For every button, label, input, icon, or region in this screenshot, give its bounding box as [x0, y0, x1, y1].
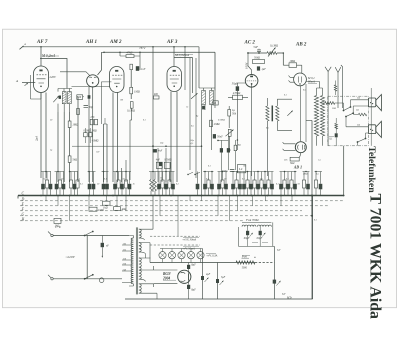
tube V1 grid dashes — [37, 74, 47, 76]
transformer core — [136, 227, 137, 294]
node a input tick — [20, 46, 24, 50]
svg-text:G: G — [22, 212, 25, 216]
wire rect filament — [154, 266, 178, 287]
wire V1 left loop — [31, 75, 42, 99]
wire x84 h — [77, 96, 84, 98]
tube V4 AF3 envelope — [167, 67, 182, 92]
svg-text:0,1: 0,1 — [286, 179, 289, 181]
svg-text:1nF: 1nF — [141, 68, 146, 71]
wire main HT bus — [18, 195, 344, 197]
svg-text:AM 2: AM 2 — [109, 40, 122, 45]
wire v6a left hooks — [289, 76, 295, 83]
antenna dipole — [335, 67, 341, 108]
transformer sec 2 — [139, 243, 141, 252]
resistor zz sp1 — [325, 102, 335, 105]
wire bus D — [20, 200, 344, 202]
capacitor 50uF blob — [236, 86, 239, 91]
svg-text:ω: ω — [254, 256, 256, 259]
svg-text:2μA: 2μA — [35, 136, 39, 141]
node mains t2 — [51, 278, 53, 280]
wire V1 top feed — [40, 47, 42, 66]
resistor v6b box — [290, 157, 299, 161]
wire Rg3 col — [130, 70, 132, 99]
wire k2 out — [346, 106, 368, 127]
capacitor 4n box — [156, 162, 162, 168]
wire bus E — [20, 205, 330, 207]
svg-text:0,1: 0,1 — [143, 120, 146, 122]
wire ac2 top wire — [248, 53, 283, 65]
resistor 400 box — [154, 96, 160, 99]
resistor box 250b — [94, 119, 97, 124]
wire bottom bus — [125, 298, 313, 300]
antenna fork — [325, 67, 331, 146]
wire ps vert x202 — [202, 249, 204, 300]
speaker LS1 — [368, 98, 375, 107]
wire V2 feed — [98, 52, 105, 75]
capacitor blob sp — [335, 133, 338, 137]
wire x153 col — [152, 47, 154, 192]
trimmer out — [287, 111, 292, 116]
svg-text:470kΩ: 470kΩ — [233, 92, 240, 95]
wire row rails — [41, 171, 322, 173]
resistor 470k box — [233, 95, 243, 99]
svg-text:1MΩ: 1MΩ — [72, 124, 78, 127]
wire ift1 to V3 — [72, 86, 110, 88]
wire x69 col3 — [69, 163, 71, 183]
wire c67 links — [218, 136, 235, 182]
svg-text:≈41V, 30mA: ≈41V, 30mA — [183, 239, 197, 242]
capacitor blob c7 — [227, 148, 230, 152]
wire v6a out — [306, 82, 322, 96]
wire ift1 top — [58, 89, 72, 92]
svg-text:0,1: 0,1 — [80, 184, 83, 186]
wire lamp feed line1 — [150, 235, 200, 237]
wire V3 grid — [117, 93, 119, 183]
svg-text:0,1MΩ: 0,1MΩ — [270, 43, 278, 47]
wire V4 grid — [176, 92, 178, 183]
wire antenna lead — [22, 82, 35, 84]
wire x185 col — [184, 47, 186, 90]
wire vol down — [229, 136, 231, 150]
wire bus G — [20, 215, 312, 217]
capacitor ps2 — [216, 279, 219, 283]
resistor 1M box v6 — [289, 63, 297, 68]
tube V6b AD1 socket — [295, 142, 306, 153]
resistor 50k h box — [253, 60, 265, 64]
capacitor 8uF b — [187, 285, 190, 289]
wire right vert x342 — [341, 65, 343, 108]
svg-text:5Ω: 5Ω — [357, 123, 360, 126]
svg-text:Fwk: Fwk — [241, 254, 248, 258]
potentiometer vol — [228, 129, 231, 136]
tube V6a AB2 socket — [294, 73, 307, 86]
svg-text:5kΩ: 5kΩ — [290, 162, 294, 165]
svg-text:1μF: 1μF — [261, 68, 266, 71]
svg-text:0,1: 0,1 — [208, 166, 211, 168]
svg-text:≈4V, 50mA: ≈4V, 50mA — [183, 248, 195, 251]
svg-text:≈4V, 0,3A: ≈4V, 0,3A — [207, 254, 218, 257]
tube V3 anode blob — [115, 70, 118, 72]
resistor 25 box — [213, 101, 218, 105]
wire sp cap link — [335, 129, 337, 146]
svg-text:0,1: 0,1 — [242, 179, 245, 181]
node b1 — [311, 195, 313, 197]
wire V3 anode — [112, 93, 114, 183]
node bus1 dots — [40, 46, 42, 48]
node b2 — [311, 215, 313, 217]
svg-text:0,1: 0,1 — [104, 179, 107, 181]
svg-text:Fwk 700Ω: Fwk 700Ω — [245, 218, 259, 222]
svg-text:5000: 5000 — [242, 267, 248, 270]
svg-text:4nF: 4nF — [158, 149, 163, 152]
svg-text:8μF: 8μF — [191, 288, 196, 291]
svg-text:4kΩ: 4kΩ — [121, 208, 126, 211]
wire x126 col — [125, 160, 127, 182]
inductor choke B — [320, 96, 324, 137]
tube V3 AM2 envelope — [110, 67, 125, 93]
wire 470k leads — [228, 96, 248, 98]
transformer sec 4 — [139, 284, 141, 293]
lamp L1 — [159, 252, 166, 259]
wire x64 col — [63, 112, 65, 182]
wire V2 left in — [60, 72, 90, 76]
svg-text:AF 7: AF 7 — [36, 40, 48, 45]
svg-text:1MΩ: 1MΩ — [289, 60, 295, 63]
svg-text:5μF: 5μF — [221, 276, 226, 279]
wire ps vert x274 — [273, 246, 275, 299]
wire fwk dash — [255, 262, 274, 264]
inductor out A — [266, 106, 269, 121]
trimmer t4 — [191, 93, 198, 99]
resistor 100 box — [77, 95, 83, 100]
tube V3 grid dashes — [112, 74, 122, 76]
resistor zz v — [335, 123, 338, 129]
svg-text:0,1: 0,1 — [276, 184, 279, 186]
capacitor g4 blob — [153, 149, 157, 152]
svg-text:AF 3: AF 3 — [166, 40, 178, 45]
lamp L4 — [187, 252, 194, 259]
wire lamp stems — [162, 249, 164, 263]
wire ps vert x217 — [217, 263, 219, 300]
wire ift1 bottom — [58, 104, 69, 112]
svg-text:Telefunken: Telefunken — [366, 146, 377, 193]
wire zzv top — [335, 118, 337, 123]
capacitor 50p — [84, 106, 89, 108]
ground mains arrow — [101, 251, 103, 258]
svg-text:MTr: MTr — [286, 296, 293, 299]
node ac2w dots — [247, 52, 249, 54]
svg-text:60μF: 60μF — [257, 237, 263, 240]
wire zz sp1 leads — [321, 103, 344, 111]
svg-text:50kΩ: 50kΩ — [254, 57, 260, 60]
wire meter bracket — [40, 59, 67, 89]
resistor rr — [234, 145, 237, 151]
wire bus F — [20, 210, 302, 212]
resistor zz sp2 — [358, 113, 366, 116]
resistor box 250a — [90, 119, 93, 124]
wire funk caps stubs — [248, 227, 261, 247]
resistor Rg3b — [130, 102, 133, 109]
capacitor 8uF a — [187, 265, 190, 269]
wire dashdot box — [328, 96, 369, 146]
switch k2 — [346, 113, 353, 116]
wire V2 down — [88, 87, 90, 182]
svg-text:AB 2: AB 2 — [295, 42, 307, 47]
svg-text:5kΩ: 5kΩ — [72, 159, 77, 162]
wire x158166 tops — [158, 148, 170, 182]
svg-text:5Ω: 5Ω — [356, 110, 359, 112]
capacitor blob g3 — [136, 66, 139, 71]
svg-text:AH 1: AH 1 — [85, 40, 97, 45]
rectifier RGN2004 — [178, 270, 191, 283]
transformer taps — [122, 245, 131, 283]
wire lamp feed line2 — [150, 244, 200, 246]
wire x69 col2 — [69, 128, 71, 157]
svg-text:~220V: ~220V — [66, 255, 76, 259]
tube V1 anode blob — [39, 70, 42, 72]
component row cathode networks — [41, 184, 45, 190]
tube V5 pins — [250, 76, 253, 78]
wire x107 col — [106, 124, 108, 182]
wire ift2 bottom — [202, 91, 216, 196]
svg-text:1M: 1M — [120, 100, 123, 102]
tube V6a pins — [299, 77, 302, 83]
resistor R k2 — [68, 156, 71, 163]
wire lamp rail — [160, 248, 203, 250]
IF transformer T1 — [62, 92, 66, 104]
wire out core — [271, 106, 273, 122]
svg-text:50n: 50n — [284, 160, 287, 162]
svg-text:2MΩ: 2MΩ — [303, 174, 308, 176]
capacitor mains blob — [101, 243, 104, 247]
node mains t1 — [51, 234, 53, 236]
capacitor box p1 — [84, 133, 88, 137]
wire V1 grid return — [45, 93, 47, 179]
switch mains1 — [85, 232, 93, 236]
wire x78 col — [77, 97, 79, 182]
svg-text:2MΩ: 2MΩ — [214, 123, 220, 126]
node d146 — [152, 145, 154, 147]
trimmer C t1 — [53, 96, 59, 102]
inductor funk B — [257, 225, 271, 227]
tube V1 AF7 envelope — [34, 66, 49, 93]
wire choke feeds — [317, 136, 323, 146]
svg-text:8μF: 8μF — [191, 263, 196, 266]
wire drops below bus — [46, 196, 312, 237]
resistor 47k box — [126, 55, 134, 58]
wire funk feed — [273, 245, 275, 247]
resistor R 1M — [68, 121, 71, 128]
svg-text:RGN: RGN — [163, 272, 171, 276]
wire y146 link — [72, 145, 202, 147]
node antenna arrow — [25, 83, 29, 86]
wire bus left tick — [17, 196, 19, 199]
resistor bus box4 — [89, 207, 97, 211]
capacitor 60uF a — [246, 231, 249, 235]
potentiometer 0,1M — [267, 52, 277, 55]
switch mains2 — [85, 275, 93, 279]
fuse mains — [99, 278, 104, 283]
svg-text:0,1: 0,1 — [44, 179, 47, 181]
wire 50kv leads — [228, 106, 230, 128]
wire x306 col — [300, 84, 306, 142]
speaker LS2 — [368, 125, 375, 134]
svg-text:0,1: 0,1 — [284, 95, 287, 97]
wire 47k leads — [120, 52, 140, 70]
resistor Rg3 upper — [130, 64, 133, 70]
svg-text:T 7001 WKK Aida: T 7001 WKK Aida — [367, 194, 384, 319]
capacitor bott blob — [273, 280, 276, 284]
svg-text:60μF: 60μF — [244, 237, 250, 240]
wire right HT riser — [343, 146, 345, 196]
wire x103 tops — [104, 118, 108, 124]
capacitor 250p — [230, 170, 235, 172]
wire v6a feed — [283, 65, 302, 73]
wire V4 top feed — [174, 47, 193, 93]
wire mains cap — [101, 236, 103, 252]
wire 50uf link — [237, 83, 245, 150]
wire x103 col — [103, 124, 105, 182]
svg-text:nF: nF — [106, 245, 109, 248]
wire x58 col — [57, 112, 59, 182]
lamp L3 — [178, 252, 185, 259]
wire mains bottom — [53, 278, 122, 280]
lamp L2 — [168, 252, 175, 259]
tube V6b pins — [298, 145, 305, 150]
IF transformer T2 — [202, 91, 206, 105]
capacitor blob t1 — [59, 96, 61, 99]
svg-text:D: D — [21, 197, 25, 201]
resistor small zz — [334, 85, 336, 91]
capacitor blob c5 — [213, 134, 216, 138]
wire B+ vertical — [311, 121, 313, 300]
lamp L5 — [197, 252, 204, 259]
capacitor 4n box2 — [164, 162, 170, 168]
wire x69 col — [68, 112, 70, 121]
svg-text:4μF: 4μF — [206, 273, 211, 276]
resistor Rg3 — [130, 87, 133, 94]
svg-text:20Ω: 20Ω — [332, 108, 336, 110]
svg-text:H: H — [21, 217, 25, 221]
capacitor g4 blob2 — [159, 162, 162, 166]
wire rect col — [188, 263, 190, 300]
resistor bus box3 — [54, 218, 61, 223]
svg-text:4μF: 4μF — [277, 249, 281, 252]
node mid dots — [201, 145, 203, 147]
tube V2 AH1 socket — [87, 75, 99, 87]
capacitor 5nF — [257, 49, 261, 53]
wire V4 anode — [170, 92, 172, 183]
svg-text:AD 1: AD 1 — [293, 165, 302, 169]
wire mains top — [53, 235, 129, 237]
wire speakers frame — [370, 88, 372, 146]
wire jog x84 — [85, 128, 90, 143]
svg-text:1MΩ: 1MΩ — [134, 91, 140, 94]
svg-text:1M: 1M — [243, 166, 246, 168]
label ticks texture — [42, 55, 334, 281]
svg-text:4μF: 4μF — [282, 293, 286, 296]
capacitor 1uF — [257, 66, 260, 70]
inductor choke A — [314, 96, 318, 137]
resistor fwk zz — [236, 261, 255, 264]
svg-text:78 V: 78 V — [139, 46, 146, 50]
svg-text:1k: 1k — [133, 184, 135, 186]
inductor funk A — [242, 225, 256, 227]
svg-text:50nF: 50nF — [217, 136, 223, 139]
capacitor 60uF b — [259, 231, 262, 235]
resistor 50k v — [228, 110, 231, 117]
svg-text:5nF: 5nF — [253, 45, 258, 49]
wire x196 col — [195, 58, 197, 178]
svg-text:1n: 1n — [186, 107, 188, 109]
switch band contacts — [188, 172, 200, 174]
tube V2 pins — [90, 76, 97, 79]
capacitor box p2 — [88, 133, 92, 137]
wire tr primary top — [129, 236, 133, 287]
wire tr sec riser — [150, 196, 153, 263]
wire x312 top — [306, 120, 312, 122]
svg-text:0,1: 0,1 — [314, 220, 317, 222]
wire top bus 1 — [22, 47, 199, 88]
svg-text:4nF: 4nF — [156, 159, 161, 162]
node bus dots — [40, 195, 42, 197]
wire k1 out — [351, 100, 369, 107]
switch k1 — [344, 107, 351, 111]
wire ac2 top col — [248, 53, 252, 75]
wire out leads — [267, 98, 292, 176]
transformer sec 3 — [139, 258, 141, 279]
resistor bus box2 — [114, 207, 121, 211]
resistor x78 mid — [77, 109, 80, 115]
resistor Rv2M — [210, 120, 213, 127]
inductor out B — [276, 106, 279, 121]
wire k3 out — [358, 133, 369, 146]
node rail dots — [45, 171, 47, 173]
wire x121 col — [121, 168, 123, 182]
wire x190 col — [189, 58, 191, 170]
tube V4 anode blob — [173, 70, 176, 72]
svg-text:5Ω: 5Ω — [357, 97, 360, 100]
wire heater dash — [255, 262, 274, 264]
capacitor ps1 — [201, 276, 204, 280]
wire top bus 2 — [104, 52, 215, 90]
tube V4 grid dashes — [170, 74, 180, 76]
tube V5 AC2 socket — [245, 75, 258, 88]
capacitor blob c6 — [220, 148, 223, 152]
svg-text:1MΩ: 1MΩ — [98, 209, 104, 212]
wire bus H — [20, 220, 244, 222]
svg-text:0,1MΩ: 0,1MΩ — [127, 110, 135, 113]
wire v6b leads — [283, 142, 301, 157]
funk box — [239, 222, 273, 246]
switch k3 — [358, 139, 366, 143]
wire tr sec exits — [139, 229, 157, 299]
svg-text:47kΩ: 47kΩ — [126, 52, 132, 55]
wire mains link — [86, 236, 88, 279]
wire zz sp2 lead — [353, 114, 358, 116]
wire x93 down — [92, 87, 94, 182]
wire Rg3b down — [130, 108, 132, 180]
svg-text:2004: 2004 — [162, 276, 170, 280]
wire x312 bottom — [312, 196, 314, 300]
svg-text:0,1MΩ: 0,1MΩ — [218, 119, 225, 122]
resistor bus box1 — [103, 201, 110, 205]
capacitor v2 out blob — [88, 95, 91, 99]
transformer sec 1 — [139, 229, 141, 238]
transformer primary — [131, 238, 133, 284]
box L2 — [237, 165, 245, 173]
svg-text:1k: 1k — [160, 178, 162, 180]
